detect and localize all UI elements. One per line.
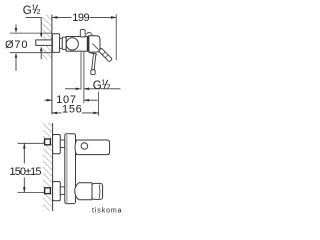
dimension 156 line segments	[52, 112, 62, 114]
pipe through wall (side view)	[36, 40, 52, 46]
lever base slope (side view)	[89, 52, 97, 55]
leader G1/2 lower: left tail + right-pointing arrow	[65, 88, 79, 90]
cap inner diagonal	[92, 44, 98, 50]
body (front view)	[65, 134, 76, 204]
cap (side view)	[89, 36, 100, 52]
wall hatch (front view)	[43, 123, 53, 211]
upper nut (front view)	[60, 140, 65, 148]
arrow up at union (side view)	[40, 51, 42, 59]
svg-text:Ø70: Ø70	[5, 39, 28, 51]
dia70 upper arrow	[15, 25, 17, 29]
svg-text:tiskoma: tiskoma	[92, 208, 122, 215]
wall face line (side view, extends down as extension line)	[51, 15, 53, 115]
dia70 bottom extension line	[10, 52, 52, 54]
lower pipe in wall	[45, 188, 51, 194]
svg-text:2: 2	[107, 84, 111, 91]
svg-text:199: 199	[72, 12, 89, 24]
lower nut (front view)	[60, 187, 65, 195]
dimension 107 right arrow + tail	[84, 99, 98, 101]
dimension 199 line right segment	[90, 16, 117, 18]
button on top of body	[80, 29, 85, 37]
outlet nipple (side view, 45 deg)	[98, 48, 112, 62]
lever bar (front view)	[75, 140, 110, 155]
wall hatch (side view)	[42, 15, 52, 60]
dimension 199 line left segment	[52, 16, 71, 18]
svg-text:2: 2	[37, 9, 41, 16]
lever bar circle	[81, 143, 88, 150]
extension line B (x=98.6)	[98, 92, 100, 116]
lever tip knob	[91, 70, 95, 75]
dimension 107 left tail + arrow	[44, 99, 52, 101]
150 dim lower extension line	[18, 191, 45, 193]
dia70 top extension line	[10, 32, 52, 34]
dimension 199 right arrowhead	[111, 16, 116, 19]
150 dim upper extension line	[18, 142, 45, 144]
cartridge circle	[66, 38, 78, 50]
150 dim line upper segment + arrow	[23, 143, 25, 163]
svg-text:150±15: 150±15	[10, 166, 42, 178]
upper escutcheon (front view)	[53, 135, 61, 154]
dia70 lower arrow	[15, 58, 17, 72]
svg-text:G: G	[93, 80, 102, 92]
upper pipe in wall	[45, 139, 51, 145]
lower escutcheon (front view)	[53, 182, 61, 201]
outlet boss (front view)	[75, 183, 92, 200]
escutcheon (side view)	[52, 34, 59, 53]
wall face line (front view)	[52, 123, 54, 211]
leader G1/2 lower: left-pointing arrow + right tail	[84, 88, 121, 90]
body inner shading line (front view)	[66, 135, 68, 203]
lever top arc	[86, 32, 92, 35]
extension line pair from top outlet	[80, 52, 82, 90]
thick joint band	[87, 37, 89, 52]
union nut (side view)	[60, 38, 63, 48]
dimension 199 left arrowhead	[52, 16, 57, 19]
dimension 156 left arrowhead	[52, 112, 57, 115]
leader G1/2 top	[26, 17, 42, 33]
outlet cap shading arc	[98, 185, 101, 199]
dimension 156 right arrowhead	[93, 112, 98, 115]
lever stick (side view)	[92, 53, 96, 70]
extension line right of 199	[115, 14, 117, 60]
150 dim line lower segment + arrow	[23, 178, 25, 193]
outlet boss end cap (front view)	[92, 183, 103, 199]
svg-text:G: G	[23, 5, 32, 17]
svg-text:156: 156	[62, 104, 82, 116]
body (side view)	[66, 37, 89, 52]
